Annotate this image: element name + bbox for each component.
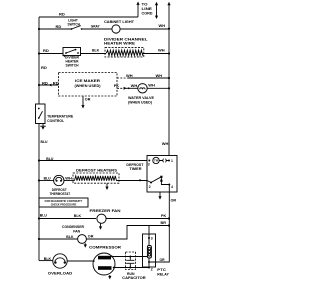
svg-text:TEMPERATURE: TEMPERATURE <box>47 115 74 119</box>
wire: right WH bus vertical <box>168 5 170 262</box>
node: left bus to defrost thermostat <box>38 179 40 181</box>
wire: BLU to defrost timer <box>39 160 147 162</box>
wire: WH to right bus <box>143 53 169 55</box>
svg-text:BLU: BLU <box>46 157 54 161</box>
wire: WH ice maker to right bus <box>117 77 128 79</box>
svg-text:BLU: BLU <box>44 177 52 181</box>
svg-text:CHECK PROCEDURE: CHECK PROCEDURE <box>51 204 77 207</box>
svg-text:DEFROST: DEFROST <box>52 188 68 192</box>
svg-text:2: 2 <box>149 185 151 189</box>
PTC relay box <box>143 234 156 267</box>
svg-text:BR: BR <box>161 221 167 225</box>
overload protector <box>53 254 67 268</box>
ground arrow under condenser fan <box>84 243 86 245</box>
svg-text:RELAY: RELAY <box>157 272 169 276</box>
svg-text:WH: WH <box>156 74 163 78</box>
node: left bus to light switch <box>38 28 40 30</box>
node: left bus to freezer fan <box>38 217 40 219</box>
PTC pin 2 <box>148 267 150 269</box>
wire: BLK left bus to overload <box>39 260 53 262</box>
wire: start winding to PTC <box>111 256 147 258</box>
diagnostic note box <box>39 198 88 207</box>
water valve solenoid <box>138 84 147 93</box>
arrow at top of right bus <box>167 2 170 5</box>
wire: top RD wire to line cord <box>39 16 138 18</box>
svg-text:3: 3 <box>151 237 153 241</box>
svg-text:SWITCH: SWITCH <box>66 63 80 67</box>
svg-text:3: 3 <box>148 163 150 167</box>
temperature control <box>36 104 46 124</box>
svg-text:RD: RD <box>41 66 47 70</box>
double arrow line cord symbol <box>156 5 158 16</box>
divider heater switch label <box>63 55 66 58</box>
wire: WH water valve to right bus <box>147 87 169 89</box>
svg-text:FAN: FAN <box>73 230 80 234</box>
svg-text:START: START <box>100 257 109 260</box>
svg-text:COMPRESSOR: COMPRESSOR <box>89 246 121 250</box>
svg-text:(WHEN USED): (WHEN USED) <box>128 101 152 105</box>
wire: RD to ice maker with connector <box>39 84 59 86</box>
compressor <box>93 253 115 275</box>
svg-text:GRAY: GRAY <box>91 25 100 29</box>
svg-text:WH: WH <box>65 177 72 181</box>
svg-text:WATER VALVE: WATER VALVE <box>128 96 155 100</box>
node: left bus to ice maker <box>38 84 40 86</box>
svg-text:BLK: BLK <box>44 257 52 261</box>
svg-text:HEATER WIRE: HEATER WIRE <box>104 41 136 45</box>
defrost thermostat <box>54 175 64 185</box>
wire: PK ice maker to water valve <box>117 87 126 89</box>
node: left bus to condenser fan <box>38 238 40 240</box>
compressor ground arrow <box>109 275 111 277</box>
wire: cabinet light to right bus WH <box>120 28 169 30</box>
svg-text:1: 1 <box>171 159 173 163</box>
svg-text:FOR DIAGNOSTIC CONTINUITY: FOR DIAGNOSTIC CONTINUITY <box>45 200 83 203</box>
ground arrow under timer <box>159 192 161 197</box>
svg-text:WH: WH <box>131 84 138 88</box>
svg-text:PTC: PTC <box>157 268 166 272</box>
svg-text:RD: RD <box>42 81 48 85</box>
svg-text:CAPACITOR: CAPACITOR <box>122 276 146 280</box>
svg-text:BLK: BLK <box>66 235 74 239</box>
svg-text:BLU: BLU <box>41 140 49 144</box>
timer pin 2 and switch blade <box>147 181 151 183</box>
wire: PK freezer fan to right bus <box>106 218 169 220</box>
timer pin 4 <box>168 184 170 186</box>
svg-text:WH: WH <box>162 142 169 146</box>
wire: main winding to run capacitor and PTC pin 2 <box>114 267 149 269</box>
wire: light switch wire RD <box>39 28 72 30</box>
svg-text:CORD: CORD <box>142 11 154 15</box>
svg-text:WH: WH <box>159 24 166 28</box>
defrost timer box <box>147 156 177 193</box>
svg-text:DEFROST HEATERS: DEFROST HEATERS <box>76 169 118 173</box>
svg-text:OR: OR <box>160 258 166 262</box>
node: left bus to defrost timer wire <box>38 159 40 161</box>
wire: Y heaters to defrost timer <box>117 180 148 182</box>
svg-text:CABINET LIGHT: CABINET LIGHT <box>104 20 135 24</box>
divider heater switch box <box>63 48 81 56</box>
svg-text:TO: TO <box>142 3 148 7</box>
svg-text:PK: PK <box>114 84 120 88</box>
svg-text:FREEZER FAN: FREEZER FAN <box>90 209 121 213</box>
wire: OR down from ice maker <box>82 96 84 106</box>
svg-text:THERMOSTAT: THERMOSTAT <box>50 192 71 196</box>
divider channel heater wire element <box>105 48 144 57</box>
wire: BLK to freezer fan <box>39 218 96 220</box>
svg-text:OR: OR <box>171 199 177 203</box>
wire: OR condenser fan to right bus <box>86 226 169 240</box>
defrost heaters element <box>75 176 117 181</box>
node: left bus to divider heater <box>38 52 40 54</box>
svg-text:PK: PK <box>161 214 167 218</box>
compressor main winding <box>98 266 112 270</box>
timer pin 1 <box>168 160 170 162</box>
svg-text:WH: WH <box>126 74 133 78</box>
ice maker box <box>59 73 118 97</box>
svg-text:BLK: BLK <box>92 49 100 53</box>
svg-text:OR: OR <box>88 234 94 238</box>
ground arrow under freezer fan <box>100 224 102 228</box>
wire: BLK to heater coil <box>81 53 107 55</box>
compressor start winding <box>98 256 111 260</box>
svg-text:SWITCH: SWITCH <box>68 23 81 27</box>
svg-text:4: 4 <box>171 185 173 189</box>
PTC pin 3 <box>148 237 150 239</box>
svg-text:BLU: BLU <box>40 214 48 218</box>
svg-text:WH: WH <box>148 83 155 87</box>
PTC thermistor <box>148 238 150 246</box>
svg-text:RD: RD <box>43 49 49 53</box>
light switch SW1 <box>71 28 73 30</box>
wire: RD to divider heater switch <box>39 53 63 55</box>
svg-text:MAIN: MAIN <box>102 267 109 270</box>
svg-text:RD: RD <box>56 25 62 29</box>
svg-text:ICE MAKER: ICE MAKER <box>75 79 101 83</box>
run capacitor <box>126 252 136 270</box>
svg-text:OVERLOAD: OVERLOAD <box>48 271 73 275</box>
wire: branch down to PTC relay pin 3 <box>148 226 150 239</box>
svg-text:TIMER: TIMER <box>130 167 143 171</box>
svg-text:2: 2 <box>151 268 153 272</box>
node on right bus <box>168 28 170 30</box>
defrost heaters box <box>73 173 119 183</box>
wire: GRAY to cabinet light <box>82 28 112 30</box>
condenser fan motor <box>78 235 87 244</box>
timer pin 3 <box>148 160 150 162</box>
freezer fan motor <box>97 214 106 223</box>
svg-text:OR: OR <box>85 98 91 102</box>
wire: BLK to condenser fan <box>39 238 78 240</box>
svg-text:CONTROL: CONTROL <box>47 119 64 123</box>
cabinet light lamp <box>112 25 120 33</box>
svg-text:CONDENSER: CONDENSER <box>62 225 84 229</box>
svg-text:RD: RD <box>59 13 65 17</box>
wire: WH thermostat to heaters <box>64 180 75 182</box>
arrow to line cord (left) <box>137 4 139 17</box>
wire: BLU to thermostat <box>39 180 54 182</box>
PTC junction to bus <box>148 261 150 263</box>
wire: left RD bus vertical <box>38 17 40 261</box>
svg-text:LINE: LINE <box>142 7 153 11</box>
svg-text:BLK: BLK <box>74 214 82 218</box>
timer motor <box>153 157 159 163</box>
temp control sensing symbol <box>40 124 46 127</box>
svg-text:WH: WH <box>158 49 165 53</box>
wire: overload to compressor <box>67 260 94 262</box>
svg-text:(WHEN USED): (WHEN USED) <box>75 84 101 88</box>
ground arrow under heaters <box>106 183 108 187</box>
